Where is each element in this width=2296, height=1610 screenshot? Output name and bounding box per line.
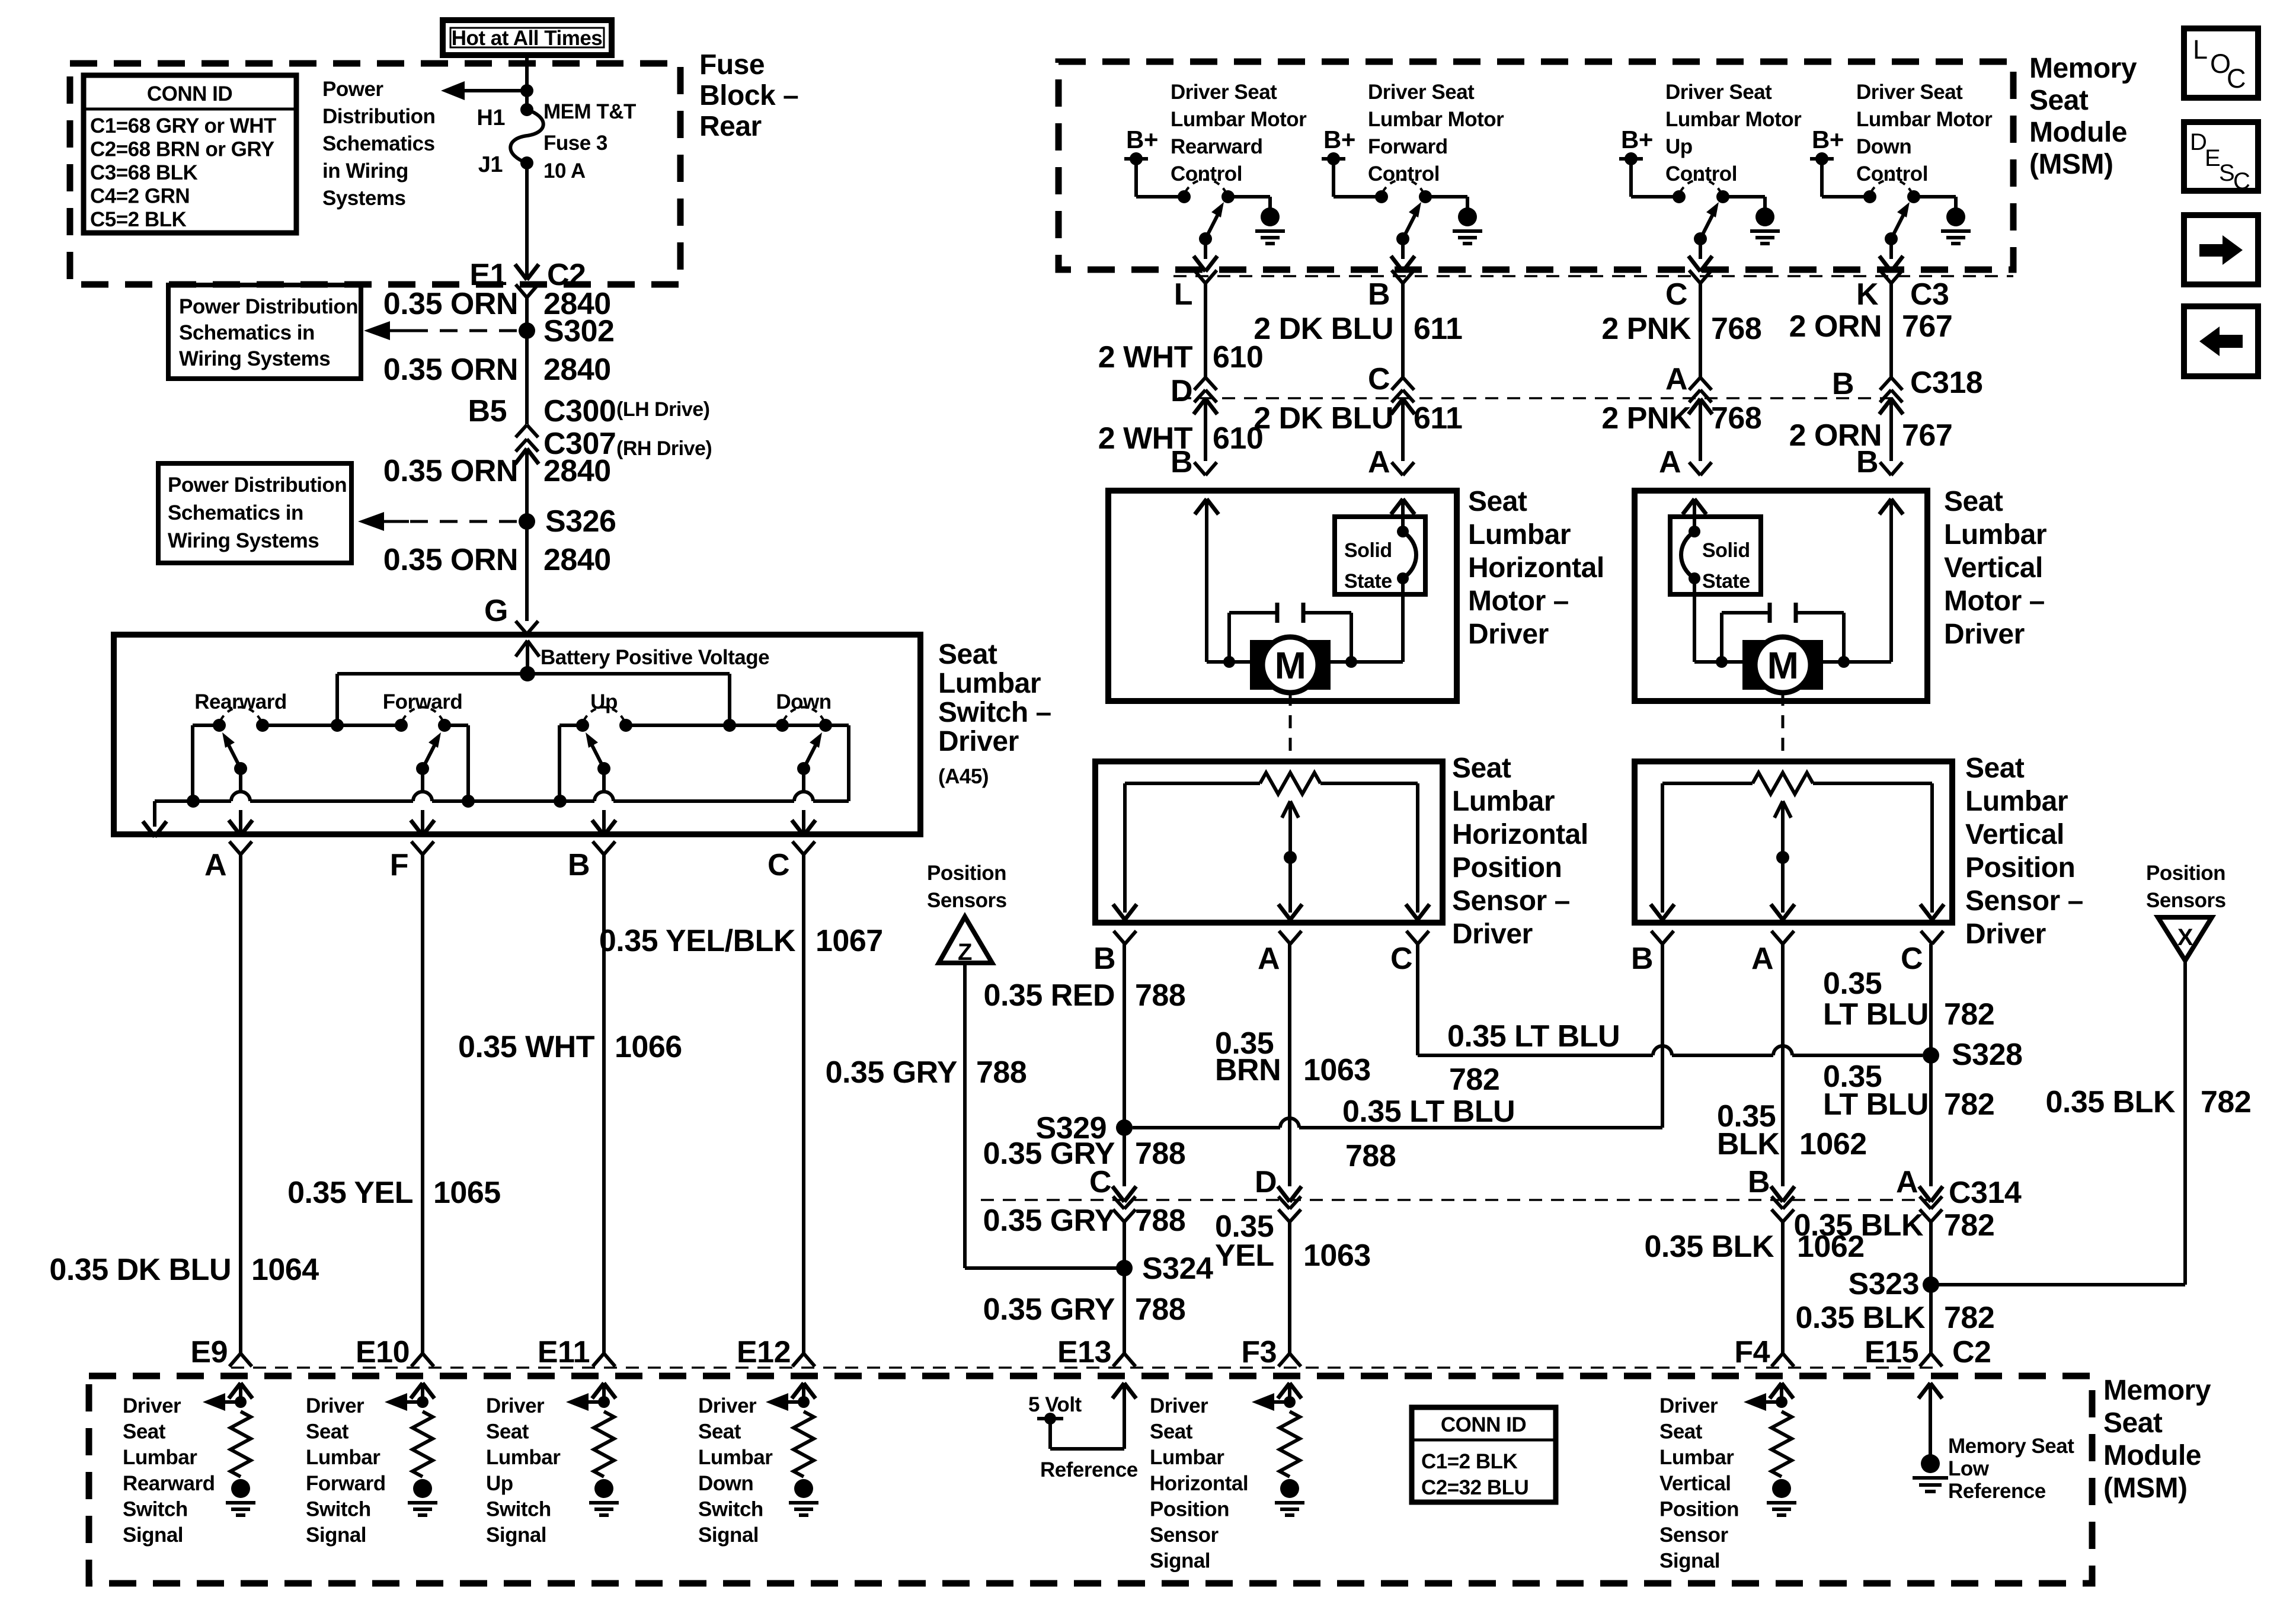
svg-text:Switch: Switch <box>698 1497 763 1521</box>
svg-text:Lumbar Motor: Lumbar Motor <box>1856 108 1993 131</box>
svg-text:Driver: Driver <box>1452 918 1533 950</box>
svg-text:S302: S302 <box>543 314 614 348</box>
svg-text:S: S <box>2219 160 2234 186</box>
svg-text:YEL: YEL <box>1215 1238 1274 1273</box>
svg-text:Driver: Driver <box>1150 1394 1208 1417</box>
svg-text:0.35 ORN: 0.35 ORN <box>383 287 518 321</box>
svg-text:S328: S328 <box>1952 1038 2022 1072</box>
svg-text:Down: Down <box>698 1472 753 1495</box>
svg-text:Z: Z <box>958 939 972 965</box>
svg-text:2840: 2840 <box>543 454 611 488</box>
svg-text:Driver: Driver <box>1944 619 2025 650</box>
svg-text:B+: B+ <box>1812 126 1844 153</box>
svg-text:Systems: Systems <box>322 187 406 210</box>
svg-text:782: 782 <box>1944 997 1994 1032</box>
svg-text:Lumbar Motor: Lumbar Motor <box>1171 108 1307 131</box>
svg-text:(MSM): (MSM) <box>2029 149 2113 180</box>
svg-text:Distribution: Distribution <box>322 105 435 128</box>
svg-text:BRN: BRN <box>1215 1053 1281 1087</box>
svg-text:Driver: Driver <box>486 1394 545 1417</box>
svg-text:Memory Seat: Memory Seat <box>1948 1435 2074 1458</box>
svg-text:C2=32 BLU: C2=32 BLU <box>1421 1476 1528 1499</box>
svg-text:0.35 LT BLU: 0.35 LT BLU <box>1342 1094 1515 1129</box>
svg-text:Rearward: Rearward <box>194 690 287 713</box>
svg-text:Driver: Driver <box>306 1394 364 1417</box>
svg-text:A: A <box>1665 362 1687 396</box>
svg-text:C: C <box>1368 362 1390 396</box>
svg-text:C1=2 BLK: C1=2 BLK <box>1421 1450 1518 1473</box>
svg-text:1062: 1062 <box>1799 1127 1867 1161</box>
svg-text:2840: 2840 <box>543 543 611 577</box>
svg-text:Memory: Memory <box>2103 1375 2211 1406</box>
svg-text:Position: Position <box>1965 852 2075 884</box>
svg-text:0.35 BLK: 0.35 BLK <box>2045 1085 2175 1119</box>
svg-text:Driver Seat: Driver Seat <box>1171 81 1277 104</box>
svg-text:Reference: Reference <box>1948 1480 2046 1503</box>
svg-text:C: C <box>2227 63 2246 94</box>
svg-text:Module: Module <box>2029 117 2127 148</box>
svg-text:Sensor –: Sensor – <box>1452 885 1570 917</box>
svg-text:768: 768 <box>1711 401 1761 436</box>
svg-text:Driver: Driver <box>1468 619 1549 650</box>
svg-text:Driver: Driver <box>1965 918 2046 950</box>
svg-text:Switch: Switch <box>486 1497 551 1521</box>
svg-text:E11: E11 <box>538 1335 590 1369</box>
svg-text:E15: E15 <box>1865 1335 1918 1369</box>
svg-text:0.35 YEL/BLK: 0.35 YEL/BLK <box>599 924 796 958</box>
svg-text:Position: Position <box>1150 1497 1229 1521</box>
svg-text:Forward: Forward <box>383 690 463 713</box>
svg-text:D: D <box>1171 374 1192 408</box>
svg-text:767: 767 <box>1902 418 1952 453</box>
svg-text:C: C <box>1901 942 1923 976</box>
svg-text:C314: C314 <box>1949 1176 2022 1210</box>
svg-text:0.35: 0.35 <box>1823 966 1882 1001</box>
svg-text:Sensor –: Sensor – <box>1965 885 2083 917</box>
svg-text:C3: C3 <box>1910 277 1949 312</box>
svg-text:Motor –: Motor – <box>1468 585 1569 617</box>
svg-text:(RH Drive): (RH Drive) <box>616 437 712 460</box>
svg-text:Module: Module <box>2103 1440 2201 1471</box>
svg-text:B: B <box>1748 1165 1770 1199</box>
svg-text:H1: H1 <box>477 105 505 130</box>
svg-text:5 Volt: 5 Volt <box>1028 1393 1082 1416</box>
svg-text:Solid: Solid <box>1702 539 1750 562</box>
svg-text:0.35 ORN: 0.35 ORN <box>383 543 518 577</box>
svg-text:Wiring Systems: Wiring Systems <box>168 529 319 552</box>
svg-text:Down: Down <box>1856 135 1911 158</box>
svg-text:Reference: Reference <box>1040 1458 1138 1481</box>
svg-text:Signal: Signal <box>123 1523 183 1547</box>
svg-text:Control: Control <box>1665 162 1737 185</box>
svg-text:788: 788 <box>1135 1204 1185 1238</box>
svg-text:LT BLU: LT BLU <box>1823 997 1929 1032</box>
svg-text:Motor –: Motor – <box>1944 585 2045 617</box>
svg-text:State: State <box>1344 570 1392 593</box>
svg-text:Driver Seat: Driver Seat <box>1856 81 1963 104</box>
svg-text:A: A <box>1751 942 1773 976</box>
svg-text:Lumbar Motor: Lumbar Motor <box>1368 108 1504 131</box>
svg-text:C4=2 GRN: C4=2 GRN <box>90 185 190 208</box>
svg-text:Power: Power <box>322 78 383 101</box>
svg-text:B+: B+ <box>1323 126 1355 153</box>
svg-text:Memory: Memory <box>2029 53 2137 84</box>
svg-text:B: B <box>568 848 590 882</box>
svg-text:2 DK BLU: 2 DK BLU <box>1253 312 1393 346</box>
svg-text:Driver: Driver <box>1659 1394 1718 1417</box>
svg-text:LT BLU: LT BLU <box>1823 1087 1929 1122</box>
svg-text:L: L <box>1174 277 1192 312</box>
svg-text:1063: 1063 <box>1303 1238 1371 1273</box>
svg-text:Seat: Seat <box>486 1420 529 1443</box>
svg-text:Sensors: Sensors <box>927 889 1007 912</box>
svg-text:F: F <box>390 848 408 882</box>
svg-text:782: 782 <box>1449 1062 1499 1097</box>
svg-text:0.35 RED: 0.35 RED <box>984 978 1115 1013</box>
svg-text:State: State <box>1702 570 1750 593</box>
svg-text:0.35 DK BLU: 0.35 DK BLU <box>49 1253 231 1287</box>
svg-text:2 ORN: 2 ORN <box>1789 309 1882 344</box>
svg-text:Up: Up <box>1665 135 1693 158</box>
svg-text:Seat: Seat <box>698 1420 741 1443</box>
svg-text:B: B <box>1368 277 1390 312</box>
svg-text:Horizontal: Horizontal <box>1468 552 1604 584</box>
svg-text:2 DK BLU: 2 DK BLU <box>1253 401 1393 436</box>
svg-text:Forward: Forward <box>1368 135 1448 158</box>
svg-text:C3=68 BLK: C3=68 BLK <box>90 161 197 184</box>
svg-text:Seat: Seat <box>123 1420 166 1443</box>
svg-text:Up: Up <box>590 690 618 713</box>
svg-text:A: A <box>1659 445 1681 479</box>
svg-text:L: L <box>2193 34 2208 65</box>
svg-text:Sensor: Sensor <box>1150 1523 1219 1547</box>
svg-text:C: C <box>2233 168 2250 194</box>
svg-text:0.35 BLK: 0.35 BLK <box>1795 1301 1925 1335</box>
svg-text:Lumbar: Lumbar <box>306 1446 380 1469</box>
svg-text:CONN ID: CONN ID <box>147 82 232 105</box>
svg-text:782: 782 <box>1944 1087 1994 1122</box>
svg-text:(A45): (A45) <box>938 765 989 788</box>
svg-text:C: C <box>1390 942 1412 976</box>
svg-text:788: 788 <box>1135 978 1185 1013</box>
svg-text:788: 788 <box>976 1055 1027 1090</box>
svg-text:F4: F4 <box>1734 1335 1770 1369</box>
svg-text:C: C <box>1089 1165 1111 1199</box>
svg-text:Signal: Signal <box>698 1523 759 1547</box>
svg-text:Hot at All Times: Hot at All Times <box>452 27 603 50</box>
svg-text:BLK: BLK <box>1717 1127 1780 1161</box>
svg-text:0.35 BLK: 0.35 BLK <box>1793 1208 1923 1243</box>
svg-text:Control: Control <box>1856 162 1928 185</box>
svg-text:Lumbar: Lumbar <box>1452 786 1555 817</box>
svg-text:S324: S324 <box>1142 1251 1213 1286</box>
svg-text:B: B <box>1856 445 1878 479</box>
svg-text:Seat: Seat <box>2103 1407 2163 1439</box>
svg-text:788: 788 <box>1345 1139 1396 1173</box>
svg-text:Driver Seat: Driver Seat <box>1665 81 1772 104</box>
svg-text:Vertical: Vertical <box>1965 819 2064 850</box>
svg-text:1064: 1064 <box>251 1253 319 1287</box>
svg-text:Driver: Driver <box>123 1394 181 1417</box>
svg-text:F3: F3 <box>1241 1335 1277 1369</box>
svg-text:C: C <box>768 848 789 882</box>
svg-text:782: 782 <box>2201 1085 2251 1119</box>
svg-text:Driver Seat: Driver Seat <box>1368 81 1475 104</box>
svg-text:1063: 1063 <box>1303 1053 1371 1087</box>
svg-text:Seat: Seat <box>938 639 997 670</box>
svg-text:B+: B+ <box>1126 126 1158 153</box>
svg-text:Down: Down <box>776 690 831 713</box>
svg-text:Position: Position <box>2146 862 2225 885</box>
svg-text:0.35 BLK: 0.35 BLK <box>1644 1230 1774 1264</box>
svg-text:C1=68 GRY or WHT: C1=68 GRY or WHT <box>90 114 276 137</box>
svg-text:S323: S323 <box>1849 1267 1919 1301</box>
svg-text:Rearward: Rearward <box>123 1472 215 1495</box>
svg-text:C5=2 BLK: C5=2 BLK <box>90 208 187 231</box>
svg-text:611: 611 <box>1414 401 1462 436</box>
svg-text:Lumbar: Lumbar <box>486 1446 561 1469</box>
svg-text:Position: Position <box>1659 1497 1739 1521</box>
svg-text:Position: Position <box>927 862 1006 885</box>
svg-text:Lumbar: Lumbar <box>1965 786 2068 817</box>
svg-text:Rearward: Rearward <box>1171 135 1263 158</box>
svg-text:768: 768 <box>1711 312 1761 346</box>
svg-text:J1: J1 <box>478 152 503 177</box>
svg-text:B: B <box>1171 445 1192 479</box>
svg-text:(MSM): (MSM) <box>2103 1473 2187 1504</box>
svg-text:Seat: Seat <box>1944 486 2003 517</box>
svg-text:B: B <box>1631 942 1653 976</box>
svg-text:2 PNK: 2 PNK <box>1601 401 1691 436</box>
svg-text:Schematics: Schematics <box>322 132 435 155</box>
svg-text:Fuse: Fuse <box>699 49 765 81</box>
svg-text:Low: Low <box>1948 1457 1990 1480</box>
svg-text:Position: Position <box>1452 852 1562 884</box>
svg-text:Seat: Seat <box>1452 753 1511 784</box>
svg-text:Switch –: Switch – <box>938 697 1051 728</box>
svg-text:B+: B+ <box>1621 126 1653 153</box>
svg-text:C: C <box>1665 277 1687 312</box>
svg-text:Lumbar: Lumbar <box>1944 519 2046 550</box>
svg-text:Driver: Driver <box>698 1394 757 1417</box>
svg-text:767: 767 <box>1902 309 1952 344</box>
svg-text:E10: E10 <box>356 1335 410 1369</box>
svg-text:0.35 WHT: 0.35 WHT <box>458 1030 595 1064</box>
svg-text:E9: E9 <box>190 1335 228 1369</box>
svg-text:1065: 1065 <box>433 1176 501 1210</box>
svg-text:C2=68 BRN or GRY: C2=68 BRN or GRY <box>90 138 274 161</box>
svg-text:0.35 GRY: 0.35 GRY <box>983 1204 1115 1238</box>
svg-text:K: K <box>1856 277 1879 312</box>
svg-text:0.35 GRY: 0.35 GRY <box>826 1055 957 1090</box>
svg-text:Signal: Signal <box>306 1523 366 1547</box>
svg-text:0.35 YEL: 0.35 YEL <box>287 1176 413 1210</box>
svg-text:Signal: Signal <box>1150 1550 1210 1573</box>
svg-text:Control: Control <box>1171 162 1242 185</box>
svg-text:Schematics in: Schematics in <box>168 501 303 524</box>
svg-text:Switch: Switch <box>306 1497 371 1521</box>
svg-text:Vertical: Vertical <box>1944 552 2043 584</box>
svg-text:Battery Positive Voltage: Battery Positive Voltage <box>541 646 769 669</box>
svg-text:2 WHT: 2 WHT <box>1098 340 1193 375</box>
svg-text:(LH Drive): (LH Drive) <box>616 398 709 421</box>
svg-text:S326: S326 <box>545 504 616 539</box>
svg-text:CONN ID: CONN ID <box>1441 1413 1526 1436</box>
svg-text:Driver: Driver <box>938 726 1019 757</box>
svg-text:Seat: Seat <box>1150 1420 1193 1443</box>
svg-text:G: G <box>484 594 508 628</box>
svg-text:782: 782 <box>1944 1208 1994 1243</box>
svg-text:10 A: 10 A <box>543 159 586 183</box>
svg-text:Seat: Seat <box>1965 753 2025 784</box>
svg-text:Signal: Signal <box>1659 1550 1720 1573</box>
svg-text:Power Distribution: Power Distribution <box>179 295 358 318</box>
svg-text:X: X <box>2177 924 2193 950</box>
svg-text:Seat: Seat <box>1659 1420 1703 1443</box>
svg-text:Switch: Switch <box>123 1497 188 1521</box>
svg-text:2840: 2840 <box>543 353 611 387</box>
svg-text:A: A <box>204 848 226 882</box>
svg-text:MEM T&T: MEM T&T <box>543 100 636 123</box>
svg-text:Sensor: Sensor <box>1659 1523 1729 1547</box>
svg-text:A: A <box>1258 942 1280 976</box>
svg-text:D: D <box>1255 1165 1277 1199</box>
svg-text:Lumbar: Lumbar <box>1659 1446 1734 1469</box>
svg-text:A: A <box>1368 445 1390 479</box>
svg-text:788: 788 <box>1135 1137 1185 1171</box>
svg-text:Lumbar: Lumbar <box>1150 1446 1224 1469</box>
svg-text:B5: B5 <box>468 394 507 428</box>
svg-text:C2: C2 <box>1952 1335 1991 1369</box>
svg-text:Lumbar: Lumbar <box>698 1446 773 1469</box>
svg-text:Control: Control <box>1368 162 1440 185</box>
svg-text:0.35 GRY: 0.35 GRY <box>983 1292 1115 1327</box>
svg-text:Schematics in: Schematics in <box>179 321 315 344</box>
svg-text:Fuse 3: Fuse 3 <box>543 132 607 155</box>
svg-text:E13: E13 <box>1057 1335 1111 1369</box>
svg-text:0.35 ORN: 0.35 ORN <box>383 454 518 488</box>
svg-text:Seat: Seat <box>1468 486 1527 517</box>
svg-text:788: 788 <box>1135 1292 1185 1327</box>
svg-text:in Wiring: in Wiring <box>322 159 408 183</box>
svg-text:Seat: Seat <box>2029 85 2089 116</box>
svg-text:Solid: Solid <box>1344 539 1392 562</box>
svg-text:M: M <box>1275 644 1306 687</box>
svg-text:E: E <box>2205 145 2220 171</box>
svg-text:C300: C300 <box>543 394 616 428</box>
svg-text:E12: E12 <box>737 1335 791 1369</box>
svg-text:Horizontal: Horizontal <box>1452 819 1588 850</box>
svg-text:782: 782 <box>1944 1301 1994 1335</box>
svg-text:Rear: Rear <box>699 111 762 142</box>
svg-text:Lumbar: Lumbar <box>123 1446 197 1469</box>
svg-text:0.35 ORN: 0.35 ORN <box>383 353 518 387</box>
svg-text:Vertical: Vertical <box>1659 1472 1731 1495</box>
svg-text:Seat: Seat <box>306 1420 349 1443</box>
svg-text:C318: C318 <box>1910 366 1982 400</box>
svg-text:Up: Up <box>486 1472 513 1495</box>
svg-text:Forward: Forward <box>306 1472 386 1495</box>
svg-text:Signal: Signal <box>486 1523 546 1547</box>
svg-text:Wiring Systems: Wiring Systems <box>179 347 330 370</box>
svg-text:M: M <box>1767 644 1799 687</box>
svg-text:B: B <box>1093 942 1115 976</box>
svg-text:2 PNK: 2 PNK <box>1601 312 1691 346</box>
svg-text:B: B <box>1832 367 1854 401</box>
svg-text:0.35 LT BLU: 0.35 LT BLU <box>1447 1019 1620 1054</box>
svg-text:Lumbar Motor: Lumbar Motor <box>1665 108 1802 131</box>
svg-text:1066: 1066 <box>615 1030 682 1064</box>
svg-text:Sensors: Sensors <box>2146 889 2226 912</box>
svg-text:A: A <box>1896 1165 1918 1199</box>
svg-text:Lumbar: Lumbar <box>1468 519 1571 550</box>
svg-text:1067: 1067 <box>816 924 883 958</box>
svg-text:Power Distribution: Power Distribution <box>168 473 347 497</box>
svg-text:Lumbar: Lumbar <box>938 668 1041 699</box>
svg-text:Block –: Block – <box>699 80 798 111</box>
svg-text:611: 611 <box>1414 312 1462 346</box>
svg-text:Horizontal: Horizontal <box>1150 1472 1248 1495</box>
